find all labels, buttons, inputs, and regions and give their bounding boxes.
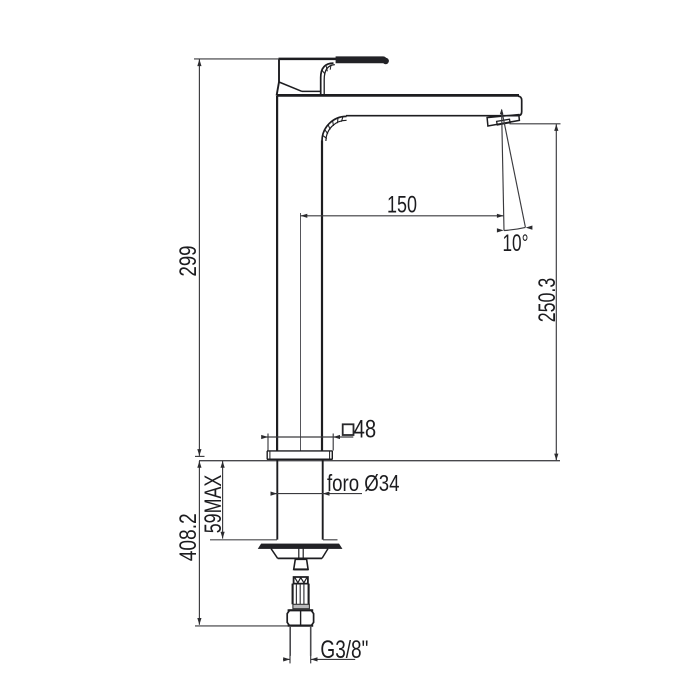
svg-text:299: 299 [175, 246, 202, 277]
svg-text:408.2: 408.2 [175, 513, 202, 561]
svg-text:59MAX: 59MAX [200, 475, 227, 534]
svg-text:10°: 10° [503, 230, 529, 257]
svg-text:G3/8": G3/8" [320, 636, 368, 664]
svg-text:48: 48 [354, 416, 377, 444]
svg-text:250.3: 250.3 [534, 278, 561, 323]
svg-text:150: 150 [387, 192, 417, 219]
svg-text:foro Ø34: foro Ø34 [327, 470, 400, 496]
